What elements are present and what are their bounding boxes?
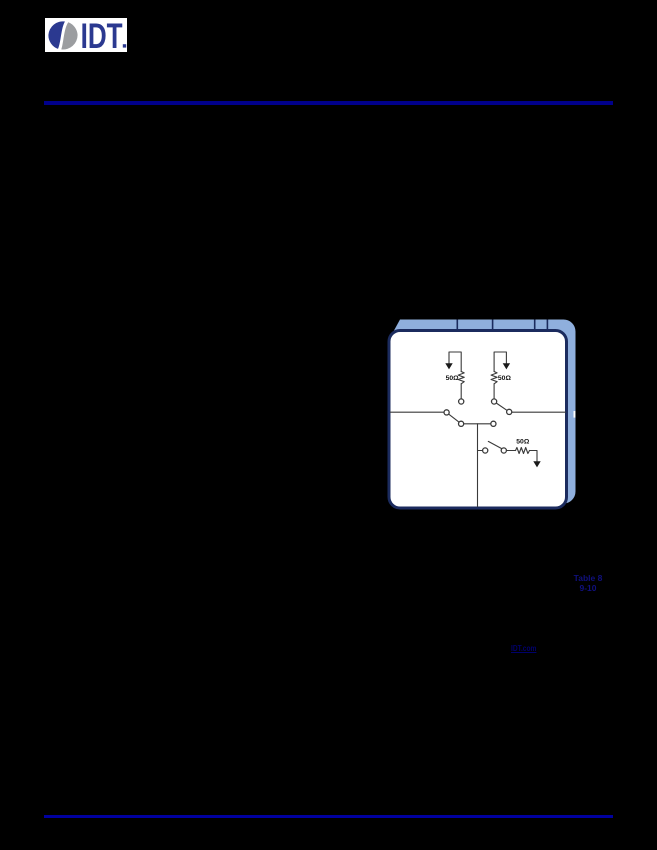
svg-text:IDT: IDT <box>81 18 123 52</box>
svg-text:50Ω: 50Ω <box>446 375 460 382</box>
svg-text:50Ω: 50Ω <box>516 439 530 446</box>
svg-text:50Ω: 50Ω <box>498 375 512 382</box>
